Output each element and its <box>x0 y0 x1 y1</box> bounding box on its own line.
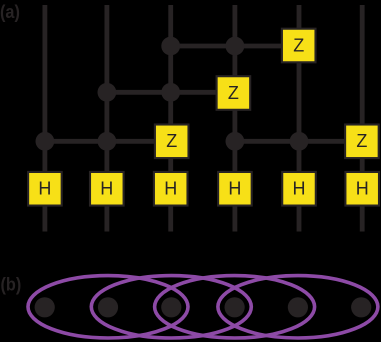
svg-text:H: H <box>293 179 306 199</box>
svg-text:H: H <box>38 179 51 199</box>
svg-text:H: H <box>164 179 177 199</box>
svg-text:(a): (a) <box>0 1 20 22</box>
svg-text:H: H <box>356 179 369 199</box>
svg-text:(b): (b) <box>1 274 22 295</box>
svg-text:Z: Z <box>293 35 304 55</box>
svg-text:Z: Z <box>228 83 239 103</box>
svg-text:Z: Z <box>166 131 177 151</box>
svg-text:H: H <box>100 179 113 199</box>
svg-text:H: H <box>228 179 241 199</box>
svg-text:Z: Z <box>356 131 367 151</box>
